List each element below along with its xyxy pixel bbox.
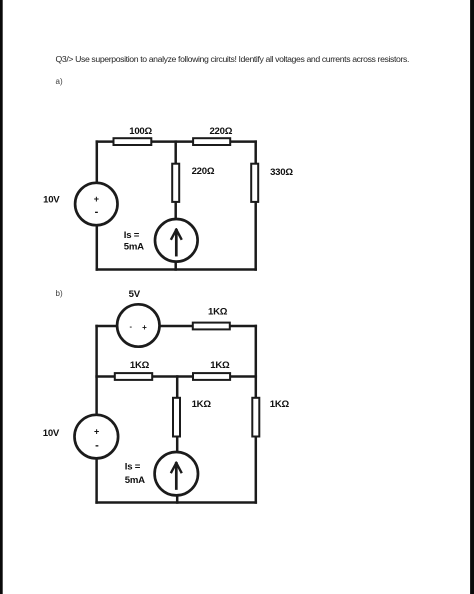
wire: circuit b left rail (95, 326, 98, 503)
label b) (56, 289, 63, 298)
svg-text:100Ω: 100Ω (129, 126, 152, 137)
resistor R4 330Ω (251, 164, 258, 202)
wire: circuit b bottom rail (97, 501, 256, 504)
resistor R7 1KΩ (193, 373, 230, 380)
left edge black strip (0, 0, 3, 594)
wire: circuit b right rail (255, 326, 258, 503)
svg-text:5mA: 5mA (125, 475, 145, 486)
svg-text:5mA: 5mA (124, 242, 144, 253)
resistor R6 1KΩ (115, 373, 152, 380)
current source I2 arrow (171, 463, 181, 489)
voltage source V1 10V (75, 183, 117, 225)
wire: circuit b top rail (97, 325, 256, 328)
svg-text:1KΩ: 1KΩ (270, 399, 290, 410)
svg-text:Is =: Is = (125, 461, 141, 472)
label a) (56, 77, 63, 86)
resistor R5 1KΩ (193, 323, 230, 330)
current source I1 arrow (171, 230, 181, 256)
svg-text:5V: 5V (129, 289, 141, 300)
wire: circuit a middle branch (174, 142, 177, 270)
svg-text:+: + (94, 194, 99, 204)
svg-text:+: + (94, 426, 99, 436)
current source I1 5mA (155, 219, 198, 262)
svg-text:1KΩ: 1KΩ (192, 399, 212, 410)
wire: circuit b middle branch (176, 377, 179, 503)
voltage source V2 5V (117, 304, 159, 346)
svg-text:+: + (142, 323, 147, 332)
resistor R8 1KΩ (252, 398, 259, 437)
right edge black strip (470, 0, 474, 594)
svg-text:220Ω: 220Ω (209, 126, 232, 137)
svg-text:220Ω: 220Ω (192, 166, 215, 177)
wire: circuit a bottom rail (97, 268, 256, 271)
svg-text:1KΩ: 1KΩ (130, 360, 150, 371)
resistor R9 1KΩ (173, 398, 180, 437)
svg-text:10V: 10V (43, 195, 60, 206)
question text (56, 54, 410, 64)
svg-text:330Ω: 330Ω (270, 167, 293, 178)
wire: circuit b second row (97, 375, 256, 378)
voltage source V3 10V (75, 415, 119, 459)
wire: circuit a left rail (96, 142, 99, 270)
svg-text:1KΩ: 1KΩ (210, 360, 230, 371)
current source I2 5mA (155, 452, 198, 495)
resistor R1 100Ω (114, 138, 152, 145)
svg-text:1KΩ: 1KΩ (208, 307, 228, 318)
wire: circuit a top rail (97, 140, 256, 143)
svg-text:Is =: Is = (124, 230, 140, 241)
resistor R2 220Ω (193, 138, 230, 145)
svg-text:10V: 10V (43, 428, 60, 439)
svg-text:-: - (95, 440, 99, 452)
svg-text:-: - (95, 206, 99, 218)
wire: circuit a right rail (254, 142, 257, 270)
resistor R3 220Ω (172, 164, 179, 202)
